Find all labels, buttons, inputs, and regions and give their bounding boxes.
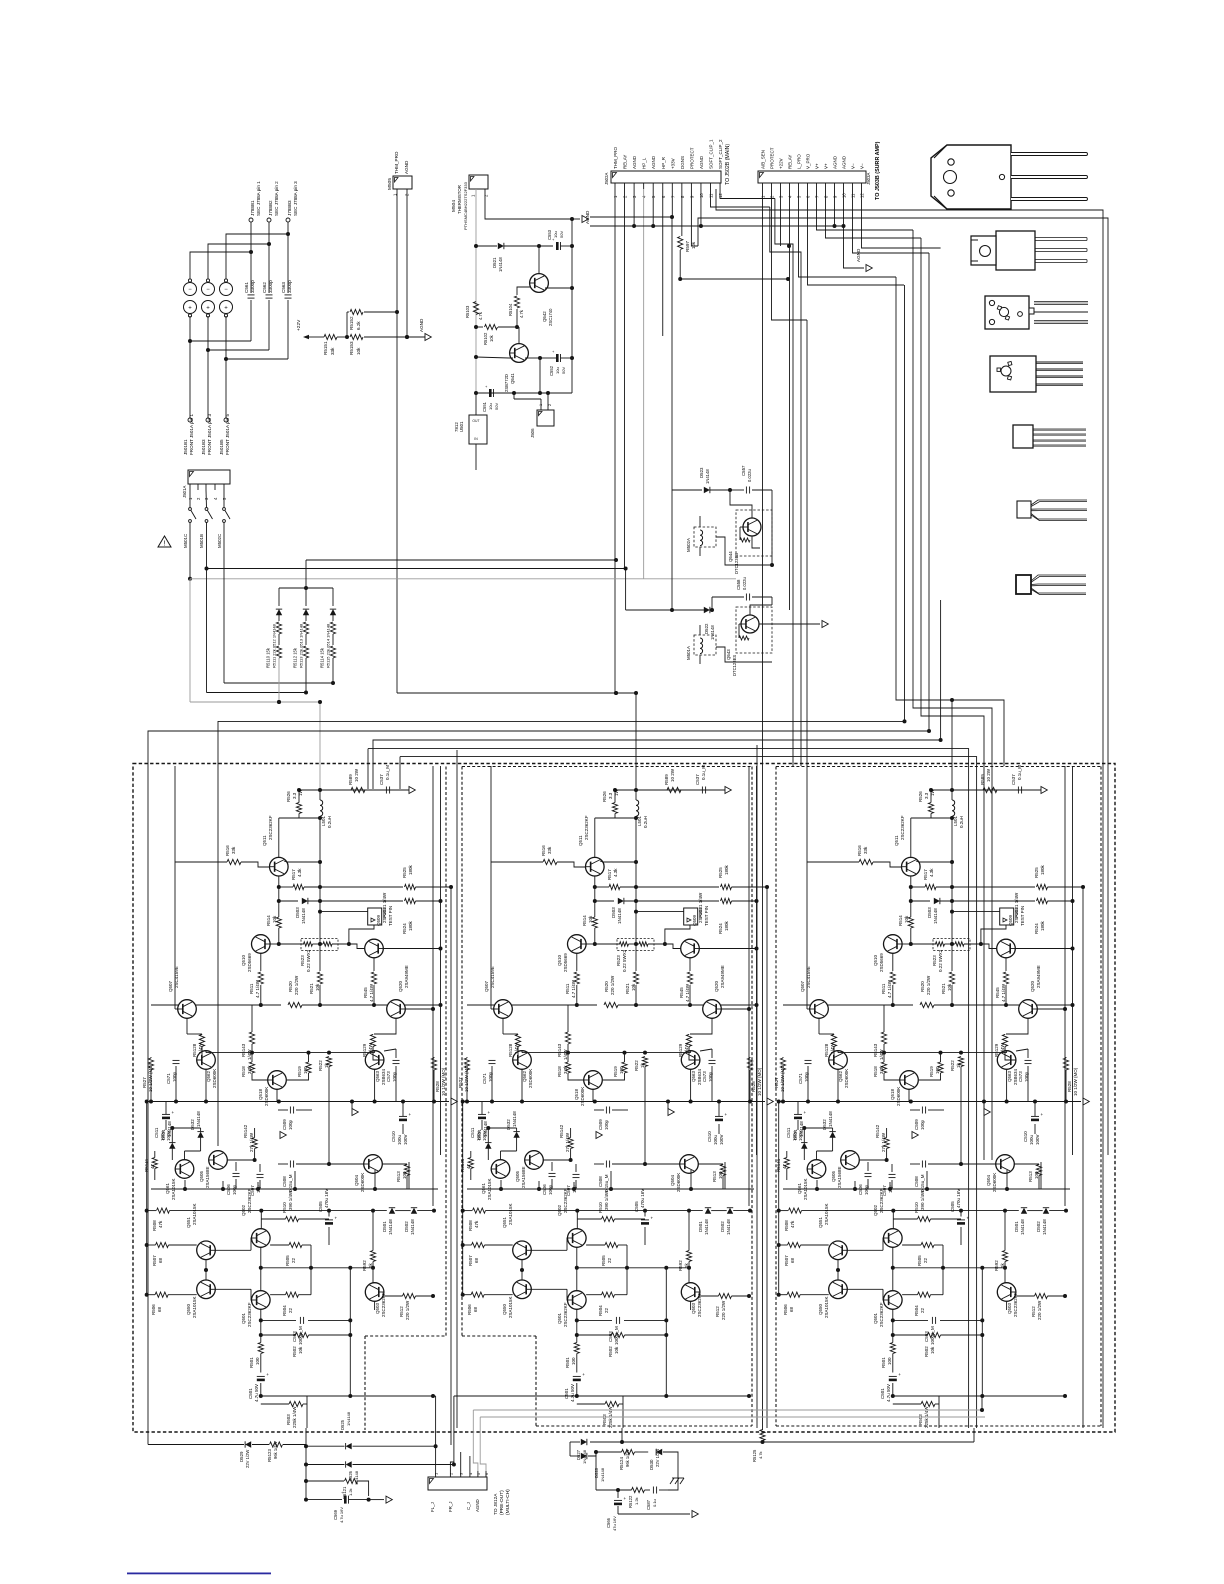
- package drawing 4-lead: [990, 356, 1036, 392]
- svg-text:100V: 100V: [719, 1134, 724, 1145]
- svg-text:OUT: OUT: [472, 419, 479, 423]
- svg-text:10 1/2W (MO): 10 1/2W (MO): [464, 1063, 469, 1092]
- svg-text:R524: R524: [718, 923, 723, 934]
- svg-text:C501: C501: [880, 1388, 885, 1399]
- [CH3] R523 0.22 5WX2 dashed box: [933, 939, 970, 951]
- capacitor C562 3300p: [268, 244, 270, 293]
- wire Q543 collector to AGND arrow: [750, 605, 772, 615]
- svg-text:Q502: Q502: [557, 1204, 562, 1216]
- svg-text:12: 12: [718, 193, 723, 198]
- package drawing small TO-92 3-lead bent: [1017, 501, 1031, 518]
- svg-text:2SC2362KF: 2SC2362KF: [584, 815, 589, 840]
- svg-text:Q518: Q518: [574, 1088, 579, 1100]
- svg-text:4.7 1/4W: 4.7 1/4W: [1001, 983, 1006, 1002]
- [CH3] R503 225k 1/4W: [893, 1403, 921, 1405]
- svg-text:D521: D521: [492, 257, 497, 268]
- svg-text:390 1/4W: 390 1/4W: [288, 1190, 293, 1210]
- svg-text:C505: C505: [634, 1201, 639, 1212]
- svg-text:R521: R521: [625, 983, 630, 994]
- svg-text:2SA1568E: 2SA1568E: [205, 1166, 210, 1188]
- AGND rail wire: [590, 216, 672, 218]
- [CH2] R510 390 1/4W row: [576, 1211, 578, 1229]
- svg-text:68: 68: [789, 1306, 794, 1312]
- svg-text:+: +: [725, 1112, 728, 1117]
- svg-text:R513: R513: [712, 1171, 717, 1182]
- svg-text:FL_J: FL_J: [430, 1502, 435, 1512]
- [CH3] R520 220 1/2W mid row: [783, 1004, 913, 1006]
- [CH2] Q562/Q563 emitter drops: [521, 1069, 523, 1101]
- svg-text:47: 47: [782, 1163, 787, 1169]
- svg-text:AGND: AGND: [651, 155, 656, 169]
- svg-text:220 1/2W: 220 1/2W: [926, 975, 931, 995]
- svg-text:AGND: AGND: [842, 155, 847, 169]
- AGND symbol bottom left: [369, 1499, 384, 1501]
- svg-text:2SA1015K: 2SA1015K: [824, 1296, 829, 1318]
- svg-text:10 1/2W (MO): 10 1/2W (MO): [441, 1067, 446, 1096]
- channel 3 dashed top/bottom: [776, 766, 1101, 768]
- svg-text:Q507: Q507: [484, 980, 489, 992]
- terminal pair 2: [202, 283, 215, 296]
- svg-text:100: 100: [571, 1357, 576, 1365]
- wire M504 pin2 to AGND: [485, 189, 572, 219]
- AGND drop from J503A AGND pins: [844, 226, 865, 268]
- svg-text:0.22 5WX2: 0.22 5WX2: [622, 949, 627, 972]
- bus rail y748 to right drop: [368, 749, 969, 1428]
- svg-text:DTC123ES: DTC123ES: [732, 655, 737, 676]
- svg-text:C566: C566: [606, 1517, 611, 1528]
- svg-text:1N4148: 1N4148: [705, 469, 710, 484]
- svg-text:68: 68: [474, 1257, 479, 1263]
- svg-text:1W: 1W: [614, 788, 619, 796]
- svg-text:1k: 1k: [324, 1062, 329, 1068]
- connector J502A TO J502B (MAIN): [611, 171, 721, 183]
- resistor R5103 4.7k: [473, 302, 478, 315]
- svg-text:3300p: 3300p: [250, 280, 255, 293]
- svg-text:J501A: J501A: [182, 485, 187, 498]
- svg-text:Q501: Q501: [873, 1312, 878, 1324]
- diode D526 1N4148: [306, 1464, 345, 1466]
- [CH2] R501 100 and C501 4.7u 50V column: [576, 1309, 578, 1342]
- [CH2] rail resistors R527 / C571 and R526 right: [464, 1058, 469, 1070]
- svg-text:R5142: R5142: [559, 1124, 564, 1138]
- [CH1] R517 4.3k row with R525 180k: [279, 886, 293, 888]
- svg-text:180k: 180k: [1040, 920, 1045, 931]
- svg-text:33k: 33k: [547, 846, 552, 854]
- bottom bus wires: [434, 1395, 436, 1397]
- transistor Q544 DTC123ES digital: [736, 510, 772, 556]
- svg-text:R5128: R5128: [192, 1043, 197, 1057]
- svg-text:4.7 1/4W: 4.7 1/4W: [685, 983, 690, 1002]
- svg-text:0.1u: 0.1u: [652, 1499, 657, 1507]
- capacitor C551 10u 50V: [489, 389, 492, 397]
- [CH1] error amp Q509 2SA2031: [365, 939, 384, 958]
- svg-text:100: 100: [718, 1171, 723, 1179]
- svg-text:+: +: [967, 1216, 970, 1221]
- svg-text:Q501: Q501: [557, 1312, 562, 1324]
- svg-text:R526: R526: [286, 791, 291, 802]
- svg-text:33k: 33k: [330, 347, 335, 355]
- svg-text:R510: R510: [282, 1202, 287, 1213]
- [CH2] input pair Q507 2SC4159E and Q520 2SA949ME: [494, 1000, 513, 1019]
- J502A pin 7 +33V: [671, 183, 673, 189]
- [CH2] R517 4.3k row with R525 180k: [595, 886, 609, 888]
- relay coil M501A: [694, 635, 716, 655]
- svg-text:22: 22: [923, 1257, 928, 1263]
- [CH2] emitter column of Q511: [594, 876, 596, 917]
- [CH1] central VAS column: [319, 818, 321, 971]
- switch M501C output: joins gray sense wire then drops to V rail: [189, 522, 191, 579]
- svg-text:1.2k: 1.2k: [348, 1488, 353, 1496]
- svg-text:2SA2031 1/4W: 2SA2031 1/4W: [698, 892, 703, 923]
- svg-text:0.2uH: 0.2uH: [643, 816, 648, 828]
- J502A pin 6 HP_R: [662, 183, 664, 189]
- [CH3] C503 1000p feedback row: [893, 1319, 928, 1321]
- [CH3] C509 100p: [921, 1107, 923, 1114]
- svg-text:R527: R527: [458, 1077, 463, 1088]
- [CH3] degeneration resistors R5128 R5143 R5129 47 1/4W: [818, 1018, 820, 1034]
- svg-text:M502C: M502C: [217, 534, 222, 548]
- svg-text:Q561: Q561: [797, 1182, 802, 1194]
- svg-text:4.7 1/4W: 4.7 1/4W: [369, 983, 374, 1002]
- svg-text:100u: 100u: [1029, 1134, 1034, 1145]
- [CH2] P501 test pin: [684, 908, 698, 925]
- svg-text:D503: D503: [927, 907, 932, 918]
- J501A pin 4: [214, 484, 216, 490]
- [CH2] output transistors Q502 Q501 2SC2362KF: [568, 1229, 587, 1248]
- svg-text:M502A: M502A: [686, 538, 691, 552]
- svg-text:C537: C537: [1011, 774, 1016, 785]
- svg-text:D523: D523: [699, 467, 704, 478]
- [CH2] R502 10k row: [577, 1334, 612, 1336]
- svg-text:10k: 10k: [904, 915, 909, 923]
- svg-text:47u 16V: 47u 16V: [612, 1516, 617, 1531]
- connector J503A TO J503B (SURR AMP): [758, 171, 866, 183]
- [CH1] rail resistors R527 / C571 and R526 right: [148, 1058, 153, 1070]
- svg-text:TO J503B (SURR AMP): TO J503B (SURR AMP): [875, 141, 881, 200]
- diode D523 1N4148: [672, 489, 702, 491]
- svg-text:2SD600K: 2SD600K: [528, 1069, 533, 1088]
- svg-text:22: 22: [291, 1257, 296, 1263]
- wire M505 pin1 long drop: [396, 189, 398, 693]
- svg-text:3300p: 3300p: [268, 280, 273, 293]
- svg-text:D501: D501: [698, 1221, 703, 1232]
- svg-text:1N4148: 1N4148: [410, 1219, 415, 1235]
- svg-text:TO J502B (MAIN): TO J502B (MAIN): [725, 144, 731, 185]
- svg-text:C557: C557: [741, 465, 746, 476]
- bus rail y731 to left supply drop: [148, 253, 929, 1445]
- [CH1] VAS transistor Q511 2SC2362KF with R516 33k: [174, 766, 176, 862]
- svg-text:R516: R516: [857, 845, 862, 856]
- svg-text:Q551: Q551: [502, 1216, 507, 1228]
- [CH3] P501 test pin: [1000, 908, 1014, 925]
- svg-text:1N4148: 1N4148: [512, 1111, 517, 1127]
- svg-text:3.3k: 3.3k: [879, 1065, 884, 1074]
- [CH3] R501 100 and C501 4.7u 50V column: [892, 1309, 894, 1342]
- [CH3] error amp Q509 2SA2031: [997, 939, 1016, 958]
- svg-text:4.7 1/4W: 4.7 1/4W: [571, 979, 576, 998]
- svg-text:1k: 1k: [640, 1062, 645, 1068]
- svg-text:Q501: Q501: [241, 1312, 246, 1324]
- svg-text:R502: R502: [608, 1346, 613, 1357]
- svg-text:R527: R527: [142, 1077, 147, 1088]
- [CH3] R510 390 1/4W row: [892, 1211, 894, 1229]
- package drawing with hole pattern: [985, 296, 1029, 329]
- svg-text:+: +: [188, 305, 192, 311]
- svg-text:2SA949ME: 2SA949ME: [720, 965, 725, 988]
- svg-text:2SA2031 1/4W: 2SA2031 1/4W: [382, 892, 387, 923]
- svg-text:+22V: +22V: [779, 158, 784, 169]
- channel separator dashed borders: [445, 767, 447, 1337]
- svg-text:10k: 10k: [588, 915, 593, 923]
- svg-text:10 1/2W (MO): 10 1/2W (MO): [780, 1063, 785, 1092]
- svg-text:Q511: Q511: [578, 835, 583, 846]
- svg-text:C558: C558: [736, 579, 741, 590]
- svg-text:R511: R511: [249, 983, 254, 994]
- svg-text:22: 22: [288, 1307, 293, 1313]
- svg-text:R527: R527: [774, 1077, 779, 1088]
- svg-text:D503: D503: [295, 907, 300, 918]
- svg-text:R504: R504: [282, 1305, 287, 1316]
- svg-text:R508: R508: [784, 1220, 789, 1231]
- svg-text:C510: C510: [707, 1131, 712, 1142]
- [CH1] D503 row with R524 180k: [279, 900, 298, 902]
- svg-text:27k 1/4W: 27k 1/4W: [249, 1132, 254, 1152]
- wire switch M502C to sense column 3: [223, 522, 225, 683]
- svg-text:Q551: Q551: [186, 1216, 191, 1228]
- capacitor C557 0.022u: [730, 489, 744, 491]
- svg-text:M501C: M501C: [183, 534, 188, 548]
- capacitor C563 3300p: [287, 234, 289, 293]
- M504 pin1 sense rail (gray): [475, 189, 477, 246]
- svg-text:C511: C511: [470, 1127, 475, 1138]
- svg-text:R5142: R5142: [875, 1124, 880, 1138]
- [CH2] C503 1000p feedback row: [577, 1319, 612, 1321]
- gray V rail into channel 1: [190, 701, 320, 703]
- [CH1] degeneration resistors R5128 R5143 R5129 47 1/4W: [186, 1018, 188, 1034]
- svg-text:R502: R502: [292, 1346, 297, 1357]
- [CH2] output filter row: R 3.3 1W, coil L, R 10 2W, C 0.1u, out arrow: [615, 789, 728, 791]
- svg-text:R589: R589: [980, 774, 985, 785]
- svg-text:HP_R: HP_R: [661, 156, 666, 169]
- svg-text:R5123: R5123: [267, 1449, 272, 1462]
- [CH3] pre-drivers Q551 Q550 2SA1015K: [829, 1241, 848, 1260]
- [CH3] Q562/Q563 emitter drops: [837, 1069, 839, 1101]
- svg-text:3300p: 3300p: [287, 280, 292, 293]
- svg-text:R5112 15k: R5112 15k: [293, 647, 298, 668]
- svg-text:Q562: Q562: [838, 1070, 843, 1082]
- [CH1] collector row: [287, 861, 320, 863]
- svg-text:47k: 47k: [790, 1220, 795, 1228]
- svg-text:1N4148: 1N4148: [196, 1111, 201, 1127]
- [CH2] current mirror row Q562 Q518 Q563: [513, 1051, 532, 1070]
- svg-text:R592: R592: [994, 1260, 999, 1271]
- svg-text:R545: R545: [363, 987, 368, 998]
- svg-text:AGND: AGND: [404, 160, 409, 174]
- svg-text:100: 100: [619, 1066, 624, 1074]
- svg-text:C552: C552: [549, 365, 554, 376]
- svg-text:0.2uH: 0.2uH: [327, 816, 332, 828]
- svg-text:220 1/2W: 220 1/2W: [1037, 1300, 1042, 1320]
- svg-text:R5113 22k.0513 1N4148: R5113 22k.0513 1N4148: [299, 623, 304, 668]
- svg-text:C573: C573: [1018, 1071, 1023, 1082]
- svg-text:1N4148: 1N4148: [301, 908, 306, 924]
- svg-text:R513: R513: [396, 1171, 401, 1182]
- svg-text:−: −: [206, 287, 210, 293]
- capacitor C552 10u 50V: [556, 354, 559, 362]
- [CH2] VBE multiplier R505 R504: [605, 1242, 618, 1247]
- svg-text:2SC2362KF: 2SC2362KF: [563, 1188, 568, 1213]
- svg-text:R504: R504: [914, 1305, 919, 1316]
- svg-text:7812: 7812: [454, 422, 459, 432]
- svg-text:Q510: Q510: [873, 954, 878, 966]
- svg-text:10k: 10k: [315, 983, 320, 991]
- svg-text:L501: L501: [953, 815, 958, 826]
- [CH1] driver Q510 2SD5669: [251, 935, 270, 954]
- svg-text:Q561: Q561: [481, 1182, 486, 1194]
- svg-text:R501: R501: [565, 1357, 570, 1368]
- svg-text:U501: U501: [459, 421, 464, 432]
- svg-text:V+: V+: [815, 163, 820, 169]
- svg-text:R520: R520: [920, 981, 925, 992]
- [CH1] output stage supply row with R508 47k and D501 D502: [146, 1102, 148, 1295]
- svg-text:100: 100: [255, 1357, 260, 1365]
- [CH1] bottom row: [261, 1395, 434, 1397]
- svg-text:R5114 15k: R5114 15k: [320, 647, 325, 668]
- [CH1] VBE multiplier R505 R504: [289, 1242, 302, 1247]
- [CH1] R522 1k vertical: [326, 1057, 331, 1067]
- svg-text:C571: C571: [166, 1073, 171, 1084]
- svg-text:R508: R508: [468, 1220, 473, 1231]
- svg-text:R5143: R5143: [557, 1043, 562, 1057]
- svg-text:0.1u_M: 0.1u_M: [385, 765, 390, 780]
- J502A pin 12 SOFT_CLIP_2: [719, 183, 721, 189]
- sense network top rail and riser: [279, 587, 333, 589]
- svg-text:J788B3: J788B3: [287, 200, 292, 216]
- svg-text:Q520: Q520: [1030, 980, 1035, 992]
- svg-text:SEC J788A pin 1: SEC J788A pin 1: [256, 181, 261, 216]
- svg-text:Q503: Q503: [1007, 1302, 1012, 1314]
- capacitor C561 3300p: [250, 252, 252, 293]
- [CH3] feedback: D531 D532 R5141 Q561 Q505 C506 C507 R5142 C508: [801, 1143, 807, 1149]
- svg-text:11: 11: [709, 193, 714, 198]
- svg-text:Q503: Q503: [375, 1302, 380, 1314]
- svg-text:4.7 1/4W: 4.7 1/4W: [255, 979, 260, 998]
- svg-text:THM_PRO: THM_PRO: [613, 146, 618, 169]
- svg-text:HP_L: HP_L: [642, 157, 647, 169]
- [CH3] inner right verticals: [1064, 766, 1066, 1206]
- [CH3] R502 10k row: [893, 1334, 928, 1336]
- resistor R5122 1.2k: [632, 1487, 645, 1492]
- [CH3] central VAS column: [951, 818, 953, 971]
- svg-text:2SA2031 1/4W: 2SA2031 1/4W: [1014, 892, 1019, 923]
- capacitor C558 0.022u: [712, 596, 744, 598]
- svg-text:V_PRO: V_PRO: [806, 153, 811, 169]
- svg-text:C571: C571: [798, 1073, 803, 1084]
- svg-text:1W: 1W: [298, 788, 303, 796]
- package drawing small TO-92 4-lead: [1013, 425, 1033, 448]
- svg-text:+: +: [409, 1112, 412, 1117]
- svg-text:C562: C562: [262, 282, 267, 293]
- svg-text:C509: C509: [914, 1119, 919, 1130]
- [CH1] R519 100 vertical: [308, 1053, 310, 1062]
- svg-text:2SD600K: 2SD600K: [212, 1069, 217, 1088]
- svg-text:68: 68: [790, 1257, 795, 1263]
- svg-text:R503: R503: [602, 1414, 607, 1425]
- svg-text:2SA1568E: 2SA1568E: [837, 1166, 842, 1188]
- svg-text:J788B2: J788B2: [268, 200, 273, 216]
- [CH1] C573 100p: [393, 1059, 400, 1061]
- channel 1 bottom-right dashed notch: [365, 1335, 446, 1337]
- +22V feed arrow: [303, 335, 309, 340]
- svg-text:0.2uH: 0.2uH: [959, 816, 964, 828]
- relay feed rail: [625, 569, 627, 611]
- [CH1] driver Q503 2SC2362KF with R512 220 1/2W: [365, 1283, 384, 1302]
- [CH3] R519 100 vertical: [940, 1053, 942, 1062]
- channel 3 right dashed edge: [1100, 767, 1102, 1427]
- svg-text:Q504: Q504: [670, 1174, 675, 1186]
- [CH2] emitter resistors R511 R521 R545: [576, 953, 578, 971]
- svg-text:180k: 180k: [408, 864, 413, 875]
- svg-text:D525: D525: [340, 1419, 345, 1430]
- svg-text:DTC123ES: DTC123ES: [734, 553, 739, 574]
- [CH1] lower rail: [151, 1188, 438, 1190]
- svg-text:R520: R520: [604, 981, 609, 992]
- svg-text:R5102: R5102: [483, 332, 488, 345]
- [CH3] output filter row: R 3.3 1W, coil L, R 10 2W, C 0.1u, out arrow: [931, 789, 1044, 791]
- svg-text:C509: C509: [282, 1119, 287, 1130]
- svg-text:D503: D503: [611, 907, 616, 918]
- J503A pin 5 L_PRO: [798, 183, 800, 189]
- [CH3] R592 1k: [1002, 1251, 1007, 1262]
- svg-text:1N4148: 1N4148: [1042, 1219, 1047, 1235]
- svg-text:10u: 10u: [488, 403, 493, 410]
- svg-text:220 1/2W: 220 1/2W: [721, 1300, 726, 1320]
- J503A pin 1 A/B_SEN: [762, 183, 764, 189]
- svg-text:33k: 33k: [231, 846, 236, 854]
- svg-text:AGND: AGND: [475, 1499, 480, 1512]
- svg-text:C510: C510: [1023, 1131, 1028, 1142]
- connector J812B TO J812A (PRE-OUT)(MULTI-CH): [428, 1477, 487, 1490]
- channel 3 right inner vertical: [1082, 887, 1084, 1428]
- [CH2] collector row: [603, 861, 636, 863]
- AGND symbol: [425, 334, 431, 341]
- svg-text:1N4148: 1N4148: [933, 908, 938, 924]
- AGND right rail: [571, 219, 573, 393]
- svg-text:100: 100: [935, 1066, 940, 1074]
- svg-text:390 1/4W: 390 1/4W: [604, 1190, 609, 1210]
- [CH2] R518 3.3k vertical: [565, 1062, 570, 1073]
- [CH2] R520 220 1/2W mid row: [467, 1004, 597, 1006]
- svg-text:C553: C553: [547, 229, 552, 240]
- svg-text:2SC2362KF: 2SC2362KF: [247, 1302, 252, 1327]
- svg-text:+: +: [582, 1372, 585, 1377]
- svg-text:R505: R505: [285, 1255, 290, 1266]
- [CH3] VBE multiplier R505 R504: [921, 1242, 934, 1247]
- [CH1] current mirror row Q562 Q518 Q563: [197, 1051, 216, 1070]
- svg-text:PTHSMC4BH222TS2F333: PTHSMC4BH222TS2F333: [463, 181, 468, 230]
- svg-text:M501B: M501B: [199, 534, 204, 548]
- svg-text:22: 22: [920, 1307, 925, 1313]
- svg-text:0.1u_M: 0.1u_M: [1017, 765, 1022, 780]
- svg-text:R589: R589: [664, 774, 669, 785]
- svg-text:R503: R503: [918, 1414, 923, 1425]
- svg-text:Q518: Q518: [258, 1088, 263, 1100]
- svg-text:R522: R522: [634, 1060, 639, 1071]
- inter-block bus verticals 1-2: [450, 887, 452, 1445]
- svg-text:R5115 22k.0514 1N4148: R5115 22k.0514 1N4148: [326, 623, 331, 668]
- svg-text:Q511: Q511: [262, 835, 267, 846]
- svg-text:100p: 100p: [288, 1119, 293, 1130]
